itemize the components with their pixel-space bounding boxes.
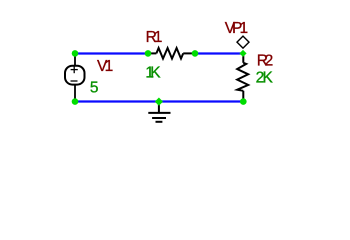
- value 2K: [256, 70, 274, 87]
- voltage source V1: [65, 53, 85, 102]
- svg-text:K: K: [150, 64, 161, 81]
- svg-text:2: 2: [265, 52, 274, 69]
- wire top-right segment: [195, 52, 243, 54]
- svg-text:1: 1: [105, 58, 114, 75]
- label R2: [257, 52, 274, 69]
- resistor R1: [148, 48, 195, 59]
- wire top-left segment: [75, 52, 148, 54]
- svg-text:1: 1: [239, 20, 248, 37]
- value 1K: [145, 64, 161, 81]
- node: bottom-left junction: [72, 98, 79, 105]
- svg-text:K: K: [263, 70, 274, 87]
- resistor R2: [237, 53, 248, 102]
- node: ground net (diamond): [155, 98, 163, 106]
- node: R1 left: [145, 50, 152, 57]
- probe VP1 diamond: [237, 36, 249, 48]
- svg-text:5: 5: [90, 80, 99, 97]
- svg-text:1: 1: [154, 29, 163, 46]
- label R1: [146, 29, 163, 46]
- ground: [148, 102, 170, 122]
- node: R1 right: [192, 50, 199, 57]
- label V1: [97, 58, 113, 75]
- wire bottom segment: [75, 100, 243, 102]
- node: VP1 net (diamond): [239, 50, 246, 57]
- label VP1: [225, 20, 248, 37]
- node: top-left junction: [72, 50, 79, 57]
- node: R2 bottom: [240, 98, 247, 105]
